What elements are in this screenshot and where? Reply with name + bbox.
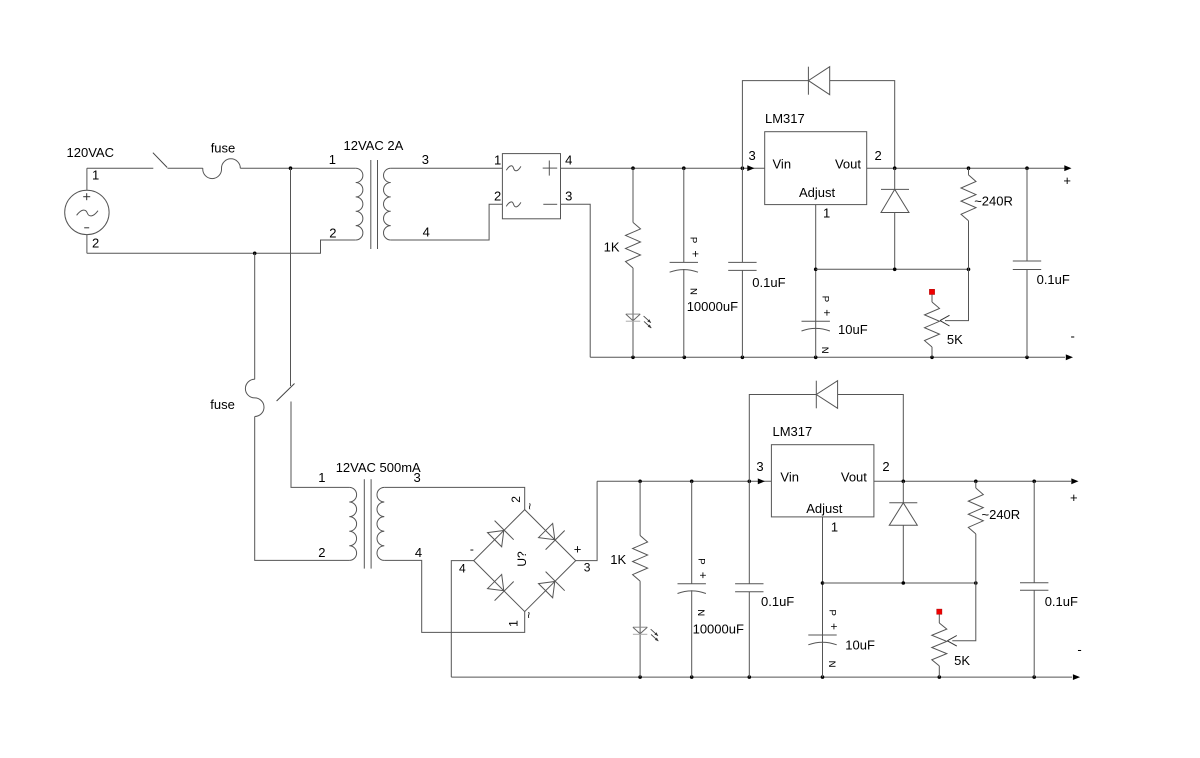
svg-text:0.1uF: 0.1uF <box>761 594 794 609</box>
capacitor C7 10uF <box>808 634 836 636</box>
svg-text:Vout: Vout <box>835 157 861 172</box>
R3 wiper <box>945 269 969 320</box>
svg-text:-: - <box>1071 328 1075 343</box>
fuse F2 (lower) <box>245 379 264 416</box>
svg-text:+: + <box>688 250 702 257</box>
svg-text:~240R: ~240R <box>982 507 1021 522</box>
pin arrow into Vin2 <box>758 478 765 484</box>
wire adjust pin down lower <box>822 517 824 677</box>
wire adjust pin down <box>815 205 817 358</box>
svg-text:+: + <box>827 623 841 630</box>
protection diode D2 over LM317 <box>742 81 808 169</box>
wire Vout rail <box>867 167 1065 169</box>
capacitor C2 0.1uF <box>741 168 743 262</box>
junction Vin2 at 0.1uF <box>748 480 752 484</box>
svg-text:3: 3 <box>422 152 429 167</box>
Vout rail arrow <box>1064 165 1071 171</box>
svg-text:+: + <box>820 309 834 316</box>
wire T1 pin3 to bridge pin1 <box>391 167 503 169</box>
junction adjust rail at D3 <box>893 268 897 272</box>
diode D6 adjust to Vout lower <box>902 481 904 503</box>
junction node top rail <box>289 166 293 170</box>
svg-text:5K: 5K <box>947 332 963 347</box>
svg-text:12VAC 500mA: 12VAC 500mA <box>336 460 421 475</box>
svg-text:+: + <box>574 542 582 557</box>
svg-text:1: 1 <box>318 470 325 485</box>
U? diode upper-right <box>536 521 565 550</box>
junction Vin rail at 10000uF <box>682 166 686 170</box>
Vout rail lower <box>874 480 1071 482</box>
adjust rail <box>816 268 969 270</box>
svg-text:0.1uF: 0.1uF <box>1045 594 1078 609</box>
svg-text:2: 2 <box>329 226 336 241</box>
svg-text:~240R: ~240R <box>974 194 1013 209</box>
svg-text:120VAC: 120VAC <box>67 145 114 160</box>
junction Vout at D3 <box>893 166 897 170</box>
junction adjust rail at D6 <box>902 581 906 585</box>
svg-text:fuse: fuse <box>210 397 235 412</box>
resistor R5 ~240R <box>975 481 977 488</box>
junction adjust rail left <box>814 268 818 272</box>
ground rail upper <box>590 356 1065 358</box>
junction node bottom <box>253 252 257 256</box>
wire lower fuse to transformer T2 pin2 <box>255 417 350 561</box>
junction ground rail <box>930 356 934 360</box>
svg-text:Vout: Vout <box>841 469 867 484</box>
junction Vout2 at D6 <box>902 480 906 484</box>
svg-text:-: - <box>470 542 474 556</box>
svg-text:1K: 1K <box>610 552 626 567</box>
junction ground rail <box>683 356 687 360</box>
junction Vout2 at 0.1uF <box>1032 480 1036 484</box>
svg-text:4: 4 <box>459 562 466 576</box>
junction Vin rail at 0.1uF <box>741 166 745 170</box>
junction ground rail lower <box>821 675 825 679</box>
BR1 plus symbol <box>543 167 558 169</box>
svg-text:10000uF: 10000uF <box>693 622 744 637</box>
svg-text:P: P <box>696 558 707 564</box>
svg-text:3: 3 <box>414 470 421 485</box>
BR1 minus symbol <box>543 203 557 205</box>
svg-text:2: 2 <box>875 148 882 163</box>
svg-text:LM317: LM317 <box>773 424 813 439</box>
bridge rectifier BR1 box <box>502 154 560 219</box>
svg-text:4: 4 <box>423 225 430 240</box>
wire vertical to lower fuse <box>254 253 256 379</box>
capacitor C5 10000uF <box>691 481 693 583</box>
svg-text:U?: U? <box>515 551 529 567</box>
svg-text:1: 1 <box>507 620 521 627</box>
switch S1 blade <box>153 153 167 168</box>
transformer T1 12VAC 2A <box>356 168 363 240</box>
svg-text:Vin: Vin <box>780 469 799 484</box>
U? diode lower-right <box>536 572 565 601</box>
svg-text:1: 1 <box>831 520 838 535</box>
svg-text:10uF: 10uF <box>845 637 875 652</box>
junction ground rail lower <box>748 675 752 679</box>
junction ground rail <box>1025 356 1029 360</box>
svg-text:10uF: 10uF <box>838 322 868 337</box>
junction ground rail lower <box>690 675 694 679</box>
ground rail lower <box>451 676 1072 678</box>
svg-text:-: - <box>1077 642 1081 657</box>
potentiometer R3 5K <box>929 289 934 294</box>
wire T1 pin4 to bridge pin2 <box>391 204 503 240</box>
resistor R1 1K <box>632 168 634 222</box>
bridge rectifier U? diamond <box>474 510 576 612</box>
wire U? plus to Vin rail <box>576 481 597 560</box>
regulator U1 LM317 <box>765 132 867 205</box>
capacitor C8 0.1uF output lower <box>1033 481 1035 583</box>
svg-text:P: P <box>820 296 831 302</box>
svg-text:N: N <box>695 609 706 616</box>
svg-text:1: 1 <box>823 205 830 220</box>
ground rail lower arrow <box>1073 674 1080 680</box>
svg-text:~: ~ <box>522 611 536 618</box>
R6 wiper <box>952 583 976 641</box>
svg-text:3: 3 <box>756 459 763 474</box>
junction Vin2 at 1K <box>638 480 642 484</box>
svg-text:2: 2 <box>92 235 99 250</box>
regulator U2 LM317 <box>771 445 874 517</box>
junction ground rail <box>741 356 745 360</box>
junction ground rail lower <box>938 675 942 679</box>
svg-text:P: P <box>688 237 699 243</box>
junction adjust rail right <box>967 268 971 272</box>
resistor R4 1K <box>639 481 641 535</box>
svg-text:0.1uF: 0.1uF <box>752 275 785 290</box>
svg-text:Adjust: Adjust <box>806 501 843 516</box>
svg-text:N: N <box>687 288 698 295</box>
capacitor C4 0.1uF output <box>1026 168 1028 261</box>
svg-text:LM317: LM317 <box>765 111 805 126</box>
wire BR1 - output down <box>561 204 591 357</box>
wire bottom 120VAC return <box>87 240 356 253</box>
svg-text:12VAC 2A: 12VAC 2A <box>344 138 404 153</box>
switch S2 blade (lower) <box>277 384 295 402</box>
wire vertical to lower switch <box>290 168 292 386</box>
junction Vout at 0.1uF <box>1025 166 1029 170</box>
svg-text:2: 2 <box>509 496 523 503</box>
resistor R2 ~240R <box>968 168 970 175</box>
LED D1 <box>626 313 640 315</box>
svg-text:1K: 1K <box>604 240 620 255</box>
junction ground rail <box>631 356 635 360</box>
svg-text:5K: 5K <box>954 653 970 668</box>
wire lower switch to transformer T2 pin1 <box>291 402 349 488</box>
BR1 ac symbol bottom <box>506 202 521 207</box>
svg-text:fuse: fuse <box>211 140 236 155</box>
junction adjust rail left lower <box>821 581 825 585</box>
pin arrow into Vin <box>747 165 754 171</box>
svg-text:1: 1 <box>329 152 336 167</box>
diode D3 adjust to Vout <box>894 168 896 189</box>
svg-text:+: + <box>1063 173 1071 188</box>
svg-text:2: 2 <box>318 545 325 560</box>
protection diode D5 over LM317 <box>749 395 816 482</box>
svg-text:Vin: Vin <box>773 157 792 172</box>
svg-text:N: N <box>819 347 830 354</box>
junction Vout at 240R <box>967 166 971 170</box>
svg-text:N: N <box>826 661 837 668</box>
junction ground rail lower <box>1032 675 1036 679</box>
junction adjust rail right lower <box>974 581 978 585</box>
junction Vin2 at 10000uF <box>690 480 694 484</box>
svg-text:2: 2 <box>882 459 889 474</box>
adjust rail lower <box>823 582 976 584</box>
wire switch to fuse <box>168 167 203 169</box>
BR1 ac symbol top <box>506 166 521 171</box>
svg-text:+: + <box>1070 490 1078 505</box>
svg-text:3: 3 <box>565 189 572 204</box>
svg-text:+: + <box>696 572 710 579</box>
wire T2 pin3 to bridge <box>384 487 524 509</box>
svg-text:1: 1 <box>494 152 501 167</box>
AC source V1 120VAC <box>65 190 109 234</box>
junction ground rail <box>814 356 818 360</box>
wire U? minus to ground rail <box>451 561 473 678</box>
svg-text:4: 4 <box>415 545 422 560</box>
wire T2 pin4 to bridge <box>384 560 524 632</box>
ground rail arrow <box>1066 354 1073 360</box>
transformer T2 12VAC 500mA <box>349 487 356 560</box>
svg-text:1: 1 <box>92 168 99 183</box>
fuse F1 <box>203 159 241 179</box>
potentiometer R6 5K <box>937 609 942 614</box>
svg-text:3: 3 <box>748 148 755 163</box>
svg-text:10000uF: 10000uF <box>687 299 738 314</box>
U? diode lower-left <box>485 572 514 601</box>
svg-text:0.1uF: 0.1uF <box>1037 272 1070 287</box>
junction ground rail lower <box>638 675 642 679</box>
Vout rail lower arrow <box>1071 478 1078 484</box>
wire source pin2 down <box>86 235 88 254</box>
svg-text:~: ~ <box>523 503 537 510</box>
svg-text:3: 3 <box>584 561 591 575</box>
U? diode upper-left <box>485 521 514 550</box>
Vin rail lower <box>597 480 771 482</box>
junction Vin rail at 1K <box>631 166 635 170</box>
junction Vout2 at 240R <box>974 480 978 484</box>
wire top rail left <box>87 167 153 169</box>
wire BR1 + output rail (Vin rail) <box>561 167 765 169</box>
LED D4 <box>633 626 647 628</box>
wire source pin1 up <box>86 168 88 190</box>
wire fuse to transformer <box>240 167 355 169</box>
svg-text:4: 4 <box>565 152 572 167</box>
capacitor C3 10uF <box>802 320 830 322</box>
capacitor C6 0.1uF <box>748 481 750 583</box>
svg-text:Adjust: Adjust <box>799 185 836 200</box>
svg-text:2: 2 <box>494 189 501 204</box>
capacitor C1 10000uF <box>683 168 685 262</box>
svg-text:P: P <box>826 610 837 616</box>
